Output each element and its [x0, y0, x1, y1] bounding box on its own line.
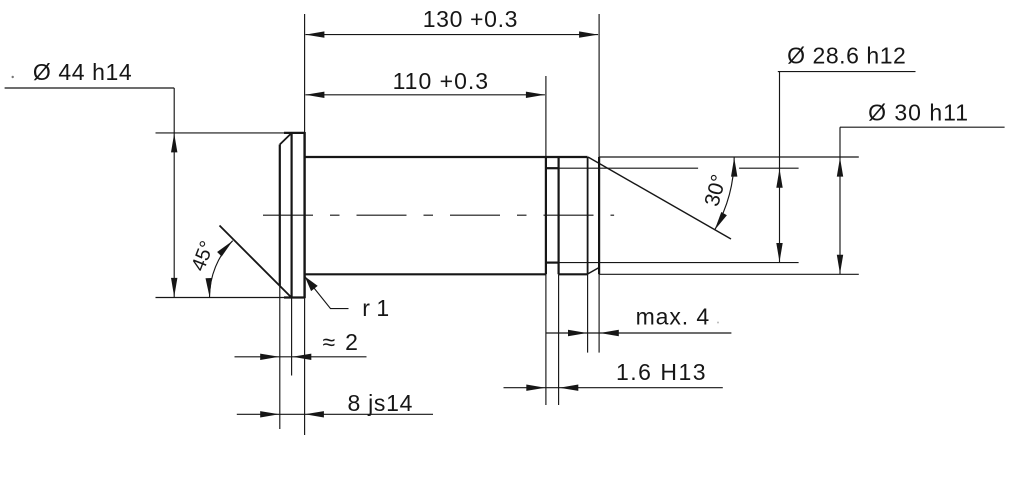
svg-text:Ø 28.6 h12: Ø 28.6 h12 — [787, 42, 906, 68]
svg-text:≈ 2: ≈ 2 — [323, 329, 360, 355]
svg-text:max. 4: max. 4 — [636, 304, 710, 330]
svg-text:r 1: r 1 — [362, 295, 389, 321]
svg-text:8 js14: 8 js14 — [348, 390, 414, 416]
svg-text:Ø 30 h11: Ø 30 h11 — [868, 99, 969, 125]
svg-text:Ø 44 h14: Ø 44 h14 — [33, 59, 132, 85]
svg-text:1.6 H13: 1.6 H13 — [616, 359, 707, 385]
svg-text:130 +0.3: 130 +0.3 — [423, 6, 518, 32]
svg-text:110 +0.3: 110 +0.3 — [393, 68, 489, 94]
